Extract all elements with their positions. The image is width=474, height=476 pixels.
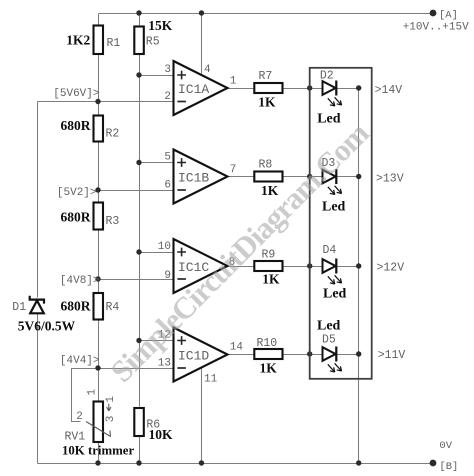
junction divider row B [136, 160, 141, 165]
junction top rail IC supply [199, 10, 204, 15]
svg-text:1K: 1K [262, 272, 280, 287]
svg-text:15K: 15K [148, 18, 173, 33]
svg-text:>13V: >13V [376, 173, 404, 186]
wire row B inverting input [99, 190, 174, 192]
svg-text:R3: R3 [106, 215, 120, 228]
wire R5 top stub [139, 14, 141, 27]
svg-text:R1: R1 [107, 37, 121, 50]
wire R10 to LED D5 anode [283, 354, 323, 356]
wire R6 bottom to bottom rail [139, 436, 141, 464]
svg-text:[4V8]>: [4V8]> [60, 275, 100, 287]
resistor R2 [94, 116, 104, 142]
svg-text:[B]: [B] [439, 461, 458, 473]
resistor R3 [94, 203, 104, 230]
wire R1 top stub [98, 14, 100, 26]
op-amp IC1B [174, 150, 228, 204]
junction bottom rail RV1 [95, 460, 100, 465]
junction cathode bus row D [356, 351, 361, 356]
svg-text:R2: R2 [106, 128, 120, 141]
trimmer RV1 wiper diagonal [86, 422, 111, 437]
wire row D noninverting input [140, 340, 174, 342]
node 5V2 junction [95, 187, 100, 192]
wire IC supply pin4 [201, 14, 203, 74]
svg-text:D2: D2 [320, 70, 334, 83]
wire R3 bottom to node 4V8 [98, 229, 100, 294]
resistor R10 [254, 349, 282, 359]
resistor R6 [134, 408, 144, 436]
svg-text:6: 6 [164, 180, 171, 192]
svg-text:13: 13 [158, 358, 171, 370]
wire D4 cathode to bus [337, 266, 359, 268]
svg-text:9: 9 [164, 270, 171, 282]
LED D2 [323, 81, 342, 107]
svg-text:D4: D4 [323, 244, 337, 257]
junction bottom rail R6 [136, 460, 141, 465]
junction cathode bus row B [356, 174, 361, 179]
junction cathode bus row C [356, 263, 361, 268]
wire RV1 pin3 to bottom rail [98, 443, 100, 464]
svg-text:2: 2 [76, 411, 83, 423]
svg-text:Led: Led [323, 287, 347, 302]
resistor R5 [134, 27, 144, 55]
svg-text:1K2: 1K2 [66, 32, 90, 47]
svg-text:680R: 680R [61, 299, 91, 314]
op-amp IC1D minus sign [177, 367, 186, 369]
wire IC supply pin11 [201, 368, 203, 464]
svg-text:R5: R5 [146, 36, 160, 49]
svg-text:IC1D: IC1D [178, 348, 209, 363]
wire R1 bottom to node 5V6V [98, 55, 100, 116]
op-amp IC1B minus sign [177, 189, 186, 191]
svg-text:1K: 1K [260, 360, 278, 375]
svg-text:R7: R7 [259, 70, 273, 83]
wire left rail bottom [37, 314, 39, 464]
trimmer RV1 body [94, 402, 104, 443]
op-amp IC1A plus sign [177, 71, 186, 80]
svg-text:IC1A: IC1A [178, 82, 209, 97]
resistor R1 [94, 26, 104, 55]
node 4V8 junction [95, 276, 100, 281]
led display box [310, 68, 372, 379]
LED D5 [323, 347, 342, 373]
node 5V6V junction [95, 99, 100, 104]
svg-text:5V6/0.5W: 5V6/0.5W [18, 319, 76, 334]
svg-text:>12V: >12V [377, 262, 405, 275]
wire row A inverting input [38, 101, 174, 103]
svg-text:0V: 0V [439, 440, 452, 452]
svg-text:1: 1 [105, 396, 117, 403]
junction led box left row C [307, 263, 312, 268]
junction divider row D [136, 338, 141, 343]
wire LED cathode bus [358, 89, 360, 464]
node 4V4 junction [95, 365, 100, 370]
svg-text:5: 5 [164, 152, 171, 164]
svg-text:[5V6V]>: [5V6V]> [53, 88, 99, 100]
wire D2 cathode to bus [337, 88, 359, 90]
resistor R8 [254, 172, 282, 182]
op-amp IC1C minus sign [177, 278, 186, 280]
wire row C inverting input [99, 279, 174, 281]
svg-text:4: 4 [204, 64, 211, 76]
svg-text:>14V: >14V [375, 84, 403, 97]
op-amp IC1D plus sign [177, 336, 186, 345]
svg-text:RV1: RV1 [65, 431, 86, 444]
wire row B noninverting input [140, 162, 174, 164]
junction led box left row B [307, 174, 312, 179]
wire left rail top [37, 102, 39, 298]
wire IC1B output to R8 [228, 176, 255, 178]
svg-text:10: 10 [158, 241, 171, 253]
wire RV1 wiper feedback [72, 369, 99, 422]
wire D3 cathode to bus [337, 176, 359, 178]
terminal A dot [430, 10, 437, 17]
svg-text:2: 2 [164, 91, 171, 103]
wire row C noninverting input [140, 252, 174, 254]
junction bottom rail cathode bus [356, 460, 361, 465]
svg-text:D1: D1 [12, 301, 26, 314]
svg-text:7: 7 [230, 164, 237, 176]
wire top rail [99, 13, 434, 15]
wire row A noninverting input [140, 75, 174, 77]
LED D4 [323, 259, 342, 285]
terminal B dot [430, 460, 437, 467]
resistor R9 [254, 261, 282, 271]
junction cathode bus row A [356, 85, 361, 90]
trimmer direction arrow [107, 404, 111, 411]
svg-text:+10V..+15V: +10V..+15V [403, 22, 469, 34]
svg-text:[A]: [A] [439, 10, 458, 22]
zener diode D1 [30, 296, 44, 314]
svg-text:Led: Led [322, 200, 346, 215]
wire R4 bottom to node 4V4 [98, 320, 100, 369]
svg-text:1: 1 [230, 76, 237, 88]
svg-text:10K: 10K [149, 427, 174, 442]
svg-text:R4: R4 [106, 301, 120, 314]
svg-text:R10: R10 [257, 337, 278, 350]
junction led box left row D [307, 351, 312, 356]
svg-text:Led: Led [317, 319, 341, 334]
wire R8 to LED D3 anode [283, 176, 323, 178]
svg-text:>11V: >11V [378, 349, 406, 362]
wire row D inverting input [99, 368, 174, 370]
wire IC1C output to R9 [228, 266, 255, 268]
svg-text:680R: 680R [61, 118, 91, 133]
op-amp IC1D [174, 328, 228, 382]
wire D5 cathode to bus [337, 354, 359, 356]
junction bottom rail pin11 [199, 460, 204, 465]
wire IC1A output to R7 [228, 88, 255, 90]
svg-text:14: 14 [230, 342, 244, 354]
op-amp IC1C plus sign [177, 248, 186, 257]
svg-text:3: 3 [105, 416, 117, 423]
svg-text:10K trimmer: 10K trimmer [62, 444, 134, 458]
resistor R7 [254, 83, 282, 93]
wire bottom rail [38, 463, 434, 465]
svg-text:680R: 680R [61, 210, 91, 225]
svg-text:IC1B: IC1B [178, 170, 209, 185]
svg-text:3: 3 [164, 64, 171, 76]
svg-text:R8: R8 [259, 159, 273, 172]
op-amp IC1B plus sign [177, 158, 186, 167]
resistor R4 [94, 293, 104, 320]
junction led box left row A [307, 85, 312, 90]
wire R9 to LED D4 anode [283, 266, 323, 268]
svg-text:11: 11 [204, 374, 218, 386]
LED D3 [323, 169, 342, 195]
svg-text:D5: D5 [322, 334, 336, 347]
wire R2 bottom to node 5V2 [98, 142, 100, 203]
svg-text:Led: Led [317, 112, 341, 127]
wire R7 to LED D2 anode [283, 88, 323, 90]
op-amp IC1C [174, 239, 228, 293]
op-amp IC1A minus sign [177, 101, 186, 103]
op-amp IC1A [174, 61, 228, 115]
wire node 4V4 to RV1 pin1 [98, 369, 100, 402]
wire divider column R5 to R6 [139, 55, 141, 407]
wire IC1D output to R10 [228, 354, 255, 356]
junction divider row C [136, 249, 141, 254]
svg-text:[5V2]>: [5V2]> [57, 187, 97, 199]
svg-text:[4V4]>: [4V4]> [60, 355, 100, 367]
svg-text:1: 1 [87, 389, 99, 396]
junction divider row A [136, 72, 141, 77]
svg-text:1K: 1K [258, 94, 276, 109]
junction top rail R5 [136, 10, 141, 15]
